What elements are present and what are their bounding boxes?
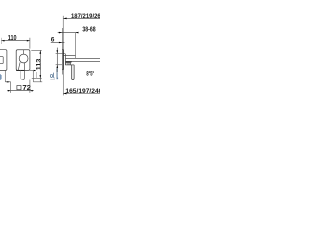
svg-text:8°5°: 8°5° bbox=[86, 71, 94, 77]
svg-text:113: 113 bbox=[35, 58, 42, 70]
svg-text:38-68: 38-68 bbox=[82, 26, 95, 33]
svg-text:187/219/262: 187/219/262 bbox=[71, 13, 100, 20]
